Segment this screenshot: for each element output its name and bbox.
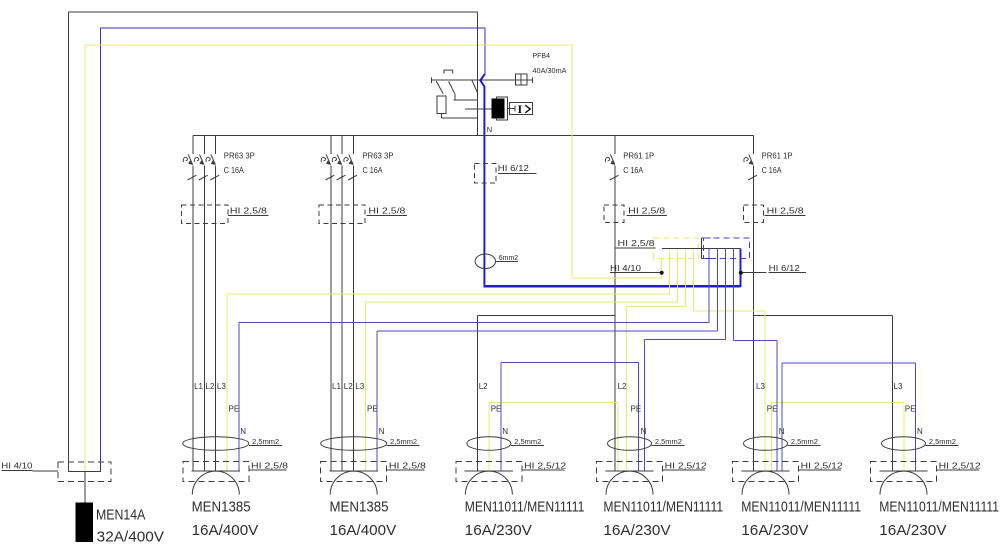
svg-text:L3: L3 xyxy=(894,382,903,391)
breaker Q1 PR63 3P pole 1 xyxy=(183,154,196,180)
socket outlet symbol at x=903.5: termination bar xyxy=(879,470,927,472)
svg-text:N: N xyxy=(502,427,508,436)
wire PE to socket X2 (yellow) xyxy=(365,250,677,471)
cable marker 2,5mm2 ellipse xyxy=(608,437,652,451)
ferrule HI 2,5/8 at Q3 output (dashed box) xyxy=(604,205,624,223)
plug MEN14A stem xyxy=(84,471,86,503)
svg-text:HI 2,5/12: HI 2,5/12 xyxy=(801,461,844,470)
svg-text:HI 2,5/12: HI 2,5/12 xyxy=(939,461,982,470)
ferrule HI 4/10 at supply feeder (dashed box) xyxy=(58,462,111,482)
wire PE feeder (top border, yellow) xyxy=(85,45,572,471)
breaker Q1 PR63 3P pole 2 xyxy=(195,154,208,180)
breaker Q2 PR63 3P pole 2 xyxy=(332,154,345,180)
svg-text:MEN11011/MEN11111: MEN11011/MEN11111 xyxy=(879,499,999,516)
socket outlet symbol at x=215.8: termination bar xyxy=(192,470,240,472)
svg-text:16A/230V: 16A/230V xyxy=(603,522,670,539)
wire N main 6mm2 (thick blue) from RCD to N terminal bar xyxy=(480,74,485,285)
svg-text:HI 4/10: HI 4/10 xyxy=(610,264,642,273)
wire N feeder (top border, blue) xyxy=(100,28,485,471)
terminal block PE bar (yellow dashed box) xyxy=(654,238,699,259)
wire N to socket X2 (blue) xyxy=(377,249,717,472)
svg-text:PR61 1P: PR61 1P xyxy=(623,151,654,160)
wire N loop socket X4 to socket X3 (blue) xyxy=(501,363,639,472)
wire L3 phase line, breaker Q2 pole 3 to socket X2 xyxy=(353,136,355,472)
label 2,5mm2 xyxy=(511,445,544,447)
wire N to socket X4 (blue) xyxy=(644,249,725,472)
svg-text:PR63 3P: PR63 3P xyxy=(363,151,394,160)
label 2,5mm2 xyxy=(387,445,420,447)
svg-text:2,5mm2: 2,5mm2 xyxy=(791,439,818,446)
svg-text:HI 2,5/8: HI 2,5/8 xyxy=(368,206,406,215)
ferrule HI 2,5/8 at Q4 output (dashed box) xyxy=(744,205,764,223)
socket dome arc xyxy=(330,471,377,495)
label 6mm2 xyxy=(496,261,519,263)
svg-text:PE: PE xyxy=(229,404,240,413)
svg-text:L2: L2 xyxy=(344,382,353,391)
svg-text:16A/230V: 16A/230V xyxy=(879,522,946,539)
svg-text:HI 2,5/8: HI 2,5/8 xyxy=(389,461,427,470)
socket outlet symbol at x=629.5: termination bar xyxy=(605,470,653,472)
svg-text:PE: PE xyxy=(367,404,378,413)
svg-text:L1: L1 xyxy=(194,382,203,391)
socket outlet symbol at x=765.5: termination bar xyxy=(741,470,789,472)
svg-text:L2: L2 xyxy=(618,382,627,391)
svg-text:HI 6/12: HI 6/12 xyxy=(769,264,801,273)
svg-text:2,5mm2: 2,5mm2 xyxy=(655,439,682,446)
svg-text:L2: L2 xyxy=(479,382,488,391)
cable marker 2,5mm2 ellipse xyxy=(882,437,926,451)
svg-text:MEN11011/MEN11111: MEN11011/MEN11111 xyxy=(603,499,723,516)
label 2,5mm2 xyxy=(788,445,821,447)
svg-text:N: N xyxy=(641,427,647,436)
wire L1 phase line, breaker Q1 pole 1 to socket X1 xyxy=(192,136,194,472)
socket dome arc xyxy=(880,471,927,495)
svg-text:16A/400V: 16A/400V xyxy=(330,522,397,539)
svg-text:PE: PE xyxy=(631,404,642,413)
wire N loop socket X5 to socket X6 (blue) xyxy=(782,363,916,471)
svg-text:C 16A: C 16A xyxy=(623,166,644,175)
svg-text:N: N xyxy=(779,427,785,436)
svg-text:L2: L2 xyxy=(206,382,215,391)
svg-text:C 16A: C 16A xyxy=(224,166,245,175)
ferrule HI 6/12 on N main below RCD (dashed box) xyxy=(475,163,497,183)
label HI 6/12 with leader to N main junction xyxy=(741,272,767,274)
svg-text:40A/30mA: 40A/30mA xyxy=(533,66,567,75)
wire L2 phase line, breaker Q1 pole 2 to socket X1 xyxy=(203,136,205,472)
wire L2 branch from Q3 line to socket X3 xyxy=(478,316,616,472)
wire L3 branch from Q4 line to socket X6 xyxy=(754,316,893,472)
svg-text:I: I xyxy=(518,102,523,116)
svg-text:HI 2,5/12: HI 2,5/12 xyxy=(524,461,567,470)
wire PE loop socket X5 to socket X6 (yellow) xyxy=(771,402,904,471)
svg-text:C 16A: C 16A xyxy=(363,166,384,175)
ferrule dashed box at socket xyxy=(321,462,387,482)
cable marker 2,5mm2 ellipse xyxy=(321,437,387,451)
svg-text:MEN1385: MEN1385 xyxy=(330,499,389,516)
ferrule HI 2,5/8 at Q1 output (dashed box) xyxy=(182,205,228,224)
wire PE main: top border down to PE bar xyxy=(572,45,661,278)
ferrule dashed box at socket xyxy=(456,462,522,482)
ferrule HI 2,5/8 at Q2 output (dashed box) xyxy=(319,205,365,224)
svg-text:HI 2,5/8: HI 2,5/8 xyxy=(251,461,289,470)
ferrule dashed box at socket xyxy=(871,462,937,482)
svg-text:N: N xyxy=(240,427,246,436)
cable marker 2,5mm2 ellipse xyxy=(467,437,511,451)
svg-text:PR61 1P: PR61 1P xyxy=(762,151,793,160)
ferrule dashed box at socket xyxy=(597,462,663,482)
svg-text:C 16A: C 16A xyxy=(762,166,783,175)
svg-text:2,5mm2: 2,5mm2 xyxy=(514,439,541,446)
svg-text:2,5mm2: 2,5mm2 xyxy=(929,439,956,446)
svg-text:N: N xyxy=(379,427,385,436)
ferrule dashed box at socket xyxy=(183,462,249,482)
junction dot on N main xyxy=(739,271,743,275)
svg-text:HI 6/12: HI 6/12 xyxy=(498,164,530,173)
junction dot on PE feed xyxy=(660,271,664,275)
svg-text:L3: L3 xyxy=(355,382,364,391)
svg-text:MEN1385: MEN1385 xyxy=(192,499,251,516)
wire supply phase feeder (top border, black) xyxy=(69,12,478,471)
svg-text:PR63 3P: PR63 3P xyxy=(224,151,255,160)
socket outlet symbol at x=353.7: termination bar xyxy=(330,470,378,472)
socket dome arc xyxy=(465,471,512,495)
wire L2 phase line, breaker Q3 to sockets X3/X4 xyxy=(614,136,616,472)
svg-text:PE: PE xyxy=(491,404,502,413)
svg-text:MEN11011/MEN11111: MEN11011/MEN11111 xyxy=(741,499,861,516)
svg-text:32A/400V: 32A/400V xyxy=(97,529,164,546)
socket dome arc xyxy=(192,471,239,495)
svg-text:HI 2,5/8: HI 2,5/8 xyxy=(618,239,656,248)
wire L2 phase line, breaker Q2 pole 2 to socket X2 xyxy=(341,136,343,472)
wire L3 phase line, breaker Q4 to sockets X5/X6 xyxy=(753,136,755,472)
svg-text:2,5mm2: 2,5mm2 xyxy=(390,439,417,446)
svg-text:MEN11011/MEN11111: MEN11011/MEN11111 xyxy=(465,499,585,516)
wire PE to socket X4 (yellow) xyxy=(627,250,686,471)
svg-text:HI 2,5/12: HI 2,5/12 xyxy=(665,461,708,470)
svg-text:PE: PE xyxy=(905,404,916,413)
cable marker 2,5mm2 ellipse xyxy=(744,437,788,451)
terminal block N bar (blue dashed box) xyxy=(703,238,749,259)
wire PE to socket X5 (yellow) xyxy=(694,250,765,471)
wire L1 phase line, breaker Q2 pole 1 to socket X2 xyxy=(330,136,332,472)
bus main distribution busbar xyxy=(193,135,754,137)
cable marker 2,5mm2 ellipse xyxy=(183,437,249,451)
svg-text:16A/230V: 16A/230V xyxy=(465,522,532,539)
breaker Q2 PR63 3P pole 3 xyxy=(344,154,357,180)
label 2,5mm2 xyxy=(926,445,959,447)
label 2,5mm2 xyxy=(652,445,685,447)
cable marker 6mm2 ellipse xyxy=(475,254,495,269)
breaker Q2 PR63 3P pole 1 xyxy=(321,154,334,180)
svg-text:HI 2,5/8: HI 2,5/8 xyxy=(767,206,805,215)
svg-text:L3: L3 xyxy=(217,382,226,391)
svg-text:N: N xyxy=(917,427,923,436)
plug MEN14A 32A/400V (filled rectangle) xyxy=(76,503,92,541)
RCD U1 PFB4 40A/30mA xyxy=(432,12,533,136)
svg-text:PE: PE xyxy=(767,404,778,413)
socket outlet symbol at x=488.9: termination bar xyxy=(465,470,513,472)
svg-text:PFB4: PFB4 xyxy=(533,51,551,60)
label 2,5mm2 xyxy=(249,445,282,447)
ferrule dashed box at socket xyxy=(733,462,799,482)
svg-text:HI 2,5/8: HI 2,5/8 xyxy=(628,206,666,215)
svg-text:HI 2,5/8: HI 2,5/8 xyxy=(230,206,268,215)
wire N to socket X5 (blue) xyxy=(733,249,777,472)
socket dome arc xyxy=(606,471,653,495)
wire PE loop socket X4 to socket X3 (yellow) xyxy=(489,402,618,471)
wire N to socket X1 (blue) xyxy=(239,249,709,472)
svg-text:L3: L3 xyxy=(756,382,765,391)
wire L3 phase line, breaker Q1 pole 3 to socket X1 xyxy=(215,136,217,472)
svg-text:HI 4/10: HI 4/10 xyxy=(1,462,33,471)
svg-text:16A/400V: 16A/400V xyxy=(192,522,259,539)
svg-text:2,5mm2: 2,5mm2 xyxy=(252,439,279,446)
socket dome arc xyxy=(742,471,789,495)
terminal block N bar (black bracket + busbar line) xyxy=(662,238,741,259)
feeder termination bar xyxy=(68,470,101,472)
breaker Q1 PR63 3P pole 3 xyxy=(206,154,219,180)
svg-text:MEN14A: MEN14A xyxy=(96,507,145,524)
svg-text:L1: L1 xyxy=(332,382,341,391)
wire PE to socket X1 (yellow) xyxy=(227,250,669,471)
breaker Q4 PR61 1P xyxy=(744,154,757,180)
svg-text:6mm2: 6mm2 xyxy=(499,255,519,262)
svg-text:N: N xyxy=(487,125,492,134)
svg-text:16A/230V: 16A/230V xyxy=(741,522,808,539)
breaker Q3 PR61 1P xyxy=(605,154,618,180)
